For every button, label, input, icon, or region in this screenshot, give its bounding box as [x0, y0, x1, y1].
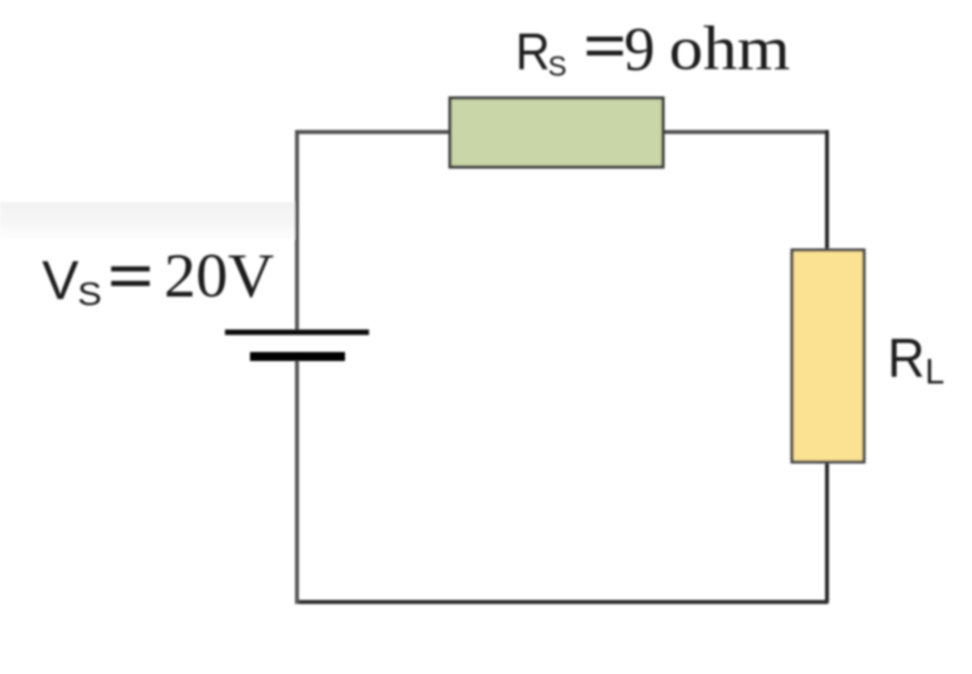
svg-text:V: V — [42, 249, 79, 311]
artifact band (decorative) — [0, 202, 295, 239]
svg-text:=: = — [583, 7, 627, 85]
wire: left vertical, node A (top-left) down to battery positive plate — [295, 132, 299, 330]
svg-text:R: R — [888, 328, 925, 389]
svg-text:R: R — [516, 23, 551, 81]
svg-text:20V: 20V — [164, 241, 274, 310]
resistor RL body (yellow box) — [792, 250, 864, 462]
battery VS negative plate (short thick bottom plate) — [250, 352, 345, 361]
svg-text:L: L — [925, 353, 944, 392]
wire: top horizontal, node A to RS left terminal — [295, 130, 452, 134]
wire: top horizontal, RS right terminal to node B (top-right) — [661, 130, 828, 134]
wire: right vertical, RL bottom terminal to node C (bottom-right) — [825, 461, 829, 603]
resistor RS body (green box) — [450, 98, 663, 167]
svg-text:S: S — [78, 277, 102, 312]
wire: bottom horizontal, node C to node D (bottom-left) — [295, 600, 828, 604]
battery VS positive plate (long top plate) — [225, 330, 369, 336]
svg-text:ohm: ohm — [669, 15, 790, 83]
wire: right vertical, node B down to RL top terminal — [825, 130, 829, 251]
svg-text:S: S — [548, 51, 567, 82]
svg-text:9: 9 — [624, 16, 655, 84]
svg-text:=: = — [107, 235, 154, 316]
wire: left vertical, battery negative plate down to node D — [295, 357, 299, 604]
